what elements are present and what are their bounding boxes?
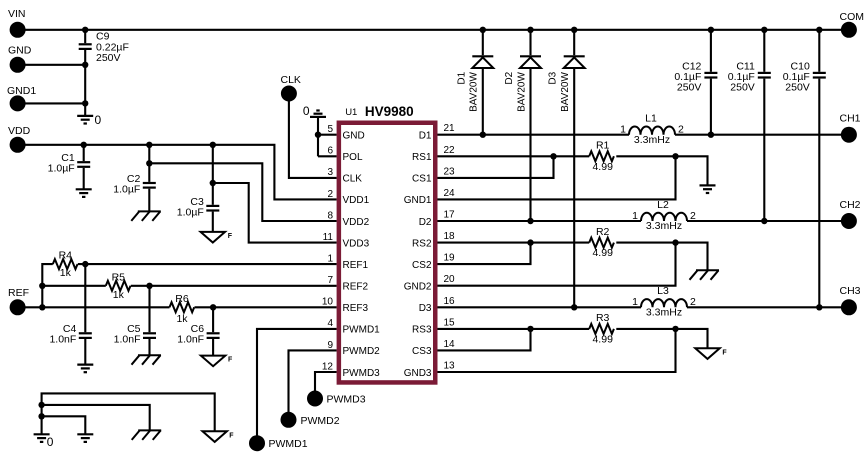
ground (chassis) cluster [132,430,162,440]
svg-text:D1: D1 [419,131,432,142]
svg-text:D2: D2 [419,217,432,228]
svg-text:250V: 250V [785,82,810,94]
resistor R1 4.99 [589,140,614,173]
terminal GND1 [7,85,36,111]
svg-text:HV9980: HV9980 [365,104,414,119]
svg-text:22: 22 [444,145,456,156]
node C3 / VDD3 feed [210,180,216,186]
svg-text:BAV20W: BAV20W [469,72,480,112]
pin 19 CS2 [412,253,455,271]
svg-text:REF2: REF2 [343,282,369,293]
node REF / C6 [210,304,216,310]
pin 3 CLK [327,167,362,184]
terminal PWMD2 [281,412,340,428]
svg-text:F: F [229,433,234,440]
svg-text:11: 11 [323,232,334,243]
node VDD / C1 [81,142,87,148]
ground (triangle F) below C6 [201,356,233,367]
node top rail / C9 [82,27,88,33]
svg-text:R1: R1 [596,140,610,152]
resistor R3 4.99 [589,312,614,345]
node VDD / C2 [146,142,152,148]
svg-text:PWMD3: PWMD3 [327,394,366,406]
svg-text:2: 2 [327,189,333,200]
node VDD / C3 [210,142,216,148]
pin 24 GND1 [404,188,455,206]
svg-text:0: 0 [47,435,54,449]
svg-text:1k: 1k [60,267,72,279]
diode D3 BAV20W [548,56,585,112]
svg-text:PWMD2: PWMD2 [301,415,340,427]
wire CS1 pin 23 riser [438,156,554,178]
svg-text:1k: 1k [113,289,125,301]
resistor R4 1k [53,250,78,279]
svg-text:18: 18 [444,231,456,242]
pin 13 GND3 [404,361,455,379]
svg-text:GND1: GND1 [404,195,432,206]
capacitor C5 1.0nF [114,323,156,346]
wire RS2 row pin 18 to R2 and ground [438,243,708,271]
node CH2 / C11 [761,218,767,224]
svg-text:PWMD2: PWMD2 [343,346,381,357]
node CH2 / D2 [527,218,533,224]
wire GND1 branch to pin 24 [438,156,676,199]
svg-text:R5: R5 [112,271,126,283]
svg-text:F: F [228,233,233,240]
capacitor C12 0.1uF 250V [674,60,717,93]
svg-text:23: 23 [444,166,456,177]
resistor R2 4.99 [589,226,614,259]
op-amp U1 HV9980 IC body [339,123,435,383]
svg-text:1.0µF: 1.0µF [177,206,204,218]
terminal GND [8,45,32,73]
diode D1 BAV20W [456,56,493,112]
ground 0 (earth) cluster [34,434,54,449]
svg-text:1.0nF: 1.0nF [177,333,204,345]
ground (triangle F) below C3 [201,232,233,243]
svg-text:5: 5 [327,124,333,135]
svg-text:7: 7 [327,275,333,286]
svg-text:250V: 250V [730,82,755,94]
pin 9 PWMD2 [327,340,380,357]
wire PWMD2 to pin 9 [289,350,337,412]
capacitor C9 0.22uF 250V [79,31,129,65]
svg-text:15: 15 [444,317,456,328]
svg-text:RS1: RS1 [412,152,432,163]
svg-text:9: 9 [327,340,333,351]
pin 10 REF3 [322,297,369,314]
wire C1 branch [83,145,85,190]
svg-text:F: F [228,357,233,364]
svg-text:14: 14 [444,339,456,350]
wire CLK to pin 3 [289,96,337,178]
node top rail / D3 [571,27,577,33]
svg-text:CS3: CS3 [412,346,432,357]
svg-text:0: 0 [303,104,310,118]
svg-text:1: 1 [632,296,638,308]
node CH3 / D3 [571,304,577,310]
svg-text:21: 21 [444,123,456,134]
svg-text:RS2: RS2 [412,238,432,249]
node CH1 / D1 [480,132,486,138]
wire PWMD3 to pin 12 [315,372,337,392]
wire C11 vertical [763,30,765,221]
inductor L2 3.3mHz [632,199,696,232]
svg-text:10: 10 [322,297,334,308]
node pin5 / ground 0 [315,132,321,138]
wire C12 vertical [710,30,712,135]
node R4 out / C4 [82,261,88,267]
node RS3 / CS3 [527,326,533,332]
svg-text:16: 16 [444,296,456,307]
ground (earth) below C4 [77,364,93,366]
svg-text:8: 8 [327,210,333,221]
svg-text:1: 1 [327,254,333,265]
svg-text:1.0µF: 1.0µF [113,184,140,196]
svg-text:VDD: VDD [8,125,31,137]
pin 5 GND [327,124,364,141]
wire diode D1 vertical [482,30,484,135]
terminal CH2 [840,199,861,229]
svg-text:CLK: CLK [343,174,363,185]
svg-text:PWMD1: PWMD1 [269,438,308,450]
ground (chassis) below C5 [132,355,162,365]
svg-text:GND: GND [8,45,32,57]
pin 6 POL [327,146,363,163]
svg-text:CH2: CH2 [840,199,861,211]
svg-text:19: 19 [444,253,456,264]
capacitor C1 1.0uF [48,152,91,175]
node R2 out [672,239,678,245]
wire C4 branch [84,264,86,365]
wire C5 branch [148,286,150,355]
inductor L3 3.3mHz [632,285,696,318]
svg-text:U1: U1 [345,107,357,118]
wire VIN-COM top rail [18,29,849,31]
svg-text:3.3mHz: 3.3mHz [646,307,682,319]
wire D2/CH2 row pin 17 [438,220,849,222]
wire GND3 branch to pin 13 [438,329,676,372]
svg-text:4.99: 4.99 [592,161,613,173]
node CH1 / C12 [708,132,714,138]
capacitor C4 1.0nF [49,323,91,346]
svg-text:VIN: VIN [8,8,26,20]
wire GND2 branch to pin 20 [438,243,676,286]
svg-text:F: F [722,349,727,356]
svg-text:REF1: REF1 [343,260,369,271]
svg-text:COM: COM [840,11,864,23]
terminal CLK [281,74,301,102]
svg-text:1.0µF: 1.0µF [48,163,75,175]
wire diode D3 vertical [573,30,575,308]
svg-text:2: 2 [690,210,696,222]
wire D1/CH1 row pin 21 [438,134,849,136]
node C2 / VDD2 feed [146,160,152,166]
pin 16 D3 [419,296,455,314]
wire GND1 stub [18,102,86,104]
wire VDD rail to pin VDD1 [18,145,337,200]
pin 8 VDD2 [327,210,369,227]
inductor L1 3.3mHz [620,113,684,146]
svg-text:VDD2: VDD2 [343,217,370,228]
svg-text:R4: R4 [59,250,73,262]
svg-text:VDD3: VDD3 [343,238,370,249]
svg-text:D3: D3 [548,71,559,84]
wire C3 branch and VDD3 feed [213,145,337,243]
pin 22 RS1 [412,145,455,163]
svg-text:3.3mHz: 3.3mHz [634,134,670,146]
svg-text:CH1: CH1 [840,113,861,125]
svg-text:VDD1: VDD1 [343,195,370,206]
capacitor C2 1.0uF [113,173,156,196]
terminal PWMD1 [249,435,308,451]
node cluster b [38,413,44,419]
capacitor C3 1.0uF [177,196,220,219]
wire C6 branch [212,307,214,355]
svg-text:1: 1 [632,210,638,222]
pin 7 REF2 [327,275,368,292]
pin 4 PWMD1 [327,318,380,335]
node top rail / D2 [527,27,533,33]
pin 21 D1 [419,123,455,141]
pin 20 GND2 [404,274,455,292]
wire RS3 row pin 15 to R3 and ground [438,329,708,348]
diode D2 BAV20W [504,56,541,112]
pin 12 PWMD3 [322,361,380,378]
resistor R5 1k [106,271,131,300]
svg-text:REF: REF [8,287,29,299]
terminal REF [8,287,29,315]
svg-text:17: 17 [444,210,456,221]
svg-text:2: 2 [690,296,696,308]
terminal VDD [8,125,31,153]
ground (earth) cluster [77,433,93,435]
svg-text:R2: R2 [596,226,610,238]
node CH3 / C10 [816,304,822,310]
node R4-R5 input [39,283,45,289]
svg-text:6: 6 [327,146,333,157]
pin 1 REF1 [327,254,368,271]
node top rail / C12 [708,27,714,33]
svg-text:1: 1 [620,124,626,136]
node cluster a [38,402,44,408]
pin 15 RS3 [412,317,455,335]
ground (triangle F) right of R3 [695,348,727,359]
svg-text:POL: POL [343,152,363,163]
ground (chassis) right of R2 [690,270,720,280]
svg-text:250V: 250V [96,52,121,64]
svg-text:4: 4 [327,318,333,329]
svg-text:3: 3 [327,167,333,178]
svg-text:D2: D2 [504,71,515,84]
svg-text:CH3: CH3 [840,285,861,297]
svg-text:4.99: 4.99 [592,333,613,345]
terminal CH3 [840,285,861,315]
pin 2 VDD1 [327,189,369,206]
node top rail / C10 [816,27,822,33]
node top rail / D1 [480,27,486,33]
pin 17 D2 [419,210,455,228]
node R1 out [672,153,678,159]
svg-text:REF3: REF3 [343,303,369,314]
svg-text:20: 20 [444,274,456,285]
node GND1 / C9 [82,100,88,106]
svg-text:GND: GND [343,131,365,142]
wire GND stub [18,64,86,66]
node GND / C9 [82,62,88,68]
terminal PWMD3 [307,391,366,407]
svg-text:250V: 250V [677,82,702,94]
svg-text:BAV20W: BAV20W [516,72,527,112]
node top rail / C11 [761,27,767,33]
wire RS1 row pin 22 to R1 and ground [438,156,708,185]
svg-text:L1: L1 [645,113,657,125]
wire pins 5,6 to ground 0 [318,117,337,156]
pin 11 VDD3 [323,232,370,249]
svg-text:12: 12 [322,361,334,372]
svg-text:L3: L3 [657,285,669,297]
wire C10 vertical [818,30,820,308]
svg-text:CS2: CS2 [412,260,432,271]
wire PWMD1 to pin 4 [257,329,337,436]
svg-text:D3: D3 [419,303,432,314]
node RS2 / CS2 [527,239,533,245]
svg-text:RS3: RS3 [412,325,432,336]
svg-text:3.3mHz: 3.3mHz [646,220,682,232]
wire R5 leads and REF2 line [42,285,336,287]
wire CS2 pin 19 riser [438,243,531,265]
svg-text:R3: R3 [596,312,610,324]
capacitor C6 1.0nF [177,323,219,346]
terminal COM [840,11,864,38]
svg-text:4.99: 4.99 [592,247,613,259]
svg-text:1k: 1k [176,313,188,325]
node RS1 / CS1 [550,153,556,159]
svg-text:BAV20W: BAV20W [560,72,571,112]
node R5 out / C5 [146,283,152,289]
wire diode D2 vertical [529,30,531,221]
ground (earth) right of R1 [700,184,716,186]
node REF / R4 riser [39,304,45,310]
svg-text:GND1: GND1 [7,85,36,97]
ground 0 (earth) at pins 5,6 [303,104,326,118]
pin 18 RS2 [412,231,455,249]
svg-text:CLK: CLK [281,74,301,86]
node R3 out [672,326,678,332]
svg-text:2: 2 [678,124,684,136]
svg-text:PWMD3: PWMD3 [343,368,381,379]
pin 23 CS1 [412,166,455,184]
svg-text:13: 13 [444,361,456,372]
wire REF line to REF3 [18,306,337,308]
svg-text:GND3: GND3 [404,368,432,379]
wire C2 branch and VDD2 feed [149,145,336,221]
svg-text:24: 24 [444,188,456,199]
wire CS3 pin 14 riser [438,329,531,351]
svg-text:1.0nF: 1.0nF [49,333,76,345]
capacitor C10 0.1uF 250V [783,60,826,93]
ground (chassis) below C2 [131,211,161,221]
svg-text:CS1: CS1 [412,174,432,185]
svg-text:1.0nF: 1.0nF [114,333,141,345]
svg-text:D1: D1 [456,71,467,84]
resistor R6 1k [170,293,195,325]
ground (triangle F) cluster [203,431,235,442]
svg-text:L2: L2 [657,199,669,211]
terminal VIN [8,8,26,38]
ground (earth) below C1 [76,188,92,190]
svg-text:R6: R6 [175,293,189,305]
wire C9 branch vertical [84,30,86,116]
wire ground cluster bottom-left [42,393,215,434]
svg-text:0: 0 [95,113,102,127]
svg-text:PWMD1: PWMD1 [343,325,381,336]
wire D3/CH3 row pin 16 [438,306,849,308]
terminal CH1 [840,113,861,143]
wire REF riser to R4 and REF1 line [42,264,336,307]
pin 14 CS3 [412,339,455,357]
capacitor C11 0.1uF 250V [728,60,771,93]
ground 0 (earth) below C9 [77,113,101,127]
svg-text:GND2: GND2 [404,282,432,293]
